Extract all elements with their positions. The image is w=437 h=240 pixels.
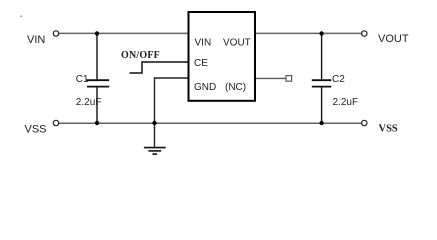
svg-text:C2: C2 [332, 74, 345, 85]
svg-text:C1: C1 [76, 74, 89, 85]
svg-text:VIN: VIN [195, 38, 212, 49]
svg-text:CE: CE [194, 58, 208, 69]
svg-text:VSS: VSS [379, 124, 398, 135]
svg-text:VSS: VSS [25, 123, 47, 135]
svg-text:VOUT: VOUT [378, 33, 409, 45]
svg-text:GND: GND [194, 82, 216, 93]
svg-text:VIN: VIN [27, 34, 45, 46]
svg-text:2.2uF: 2.2uF [333, 97, 359, 108]
svg-text:(NC): (NC) [225, 82, 246, 93]
svg-text:VOUT: VOUT [223, 38, 251, 49]
svg-text:ON/OFF: ON/OFF [121, 50, 160, 61]
svg-text:2.2uF: 2.2uF [76, 97, 102, 108]
